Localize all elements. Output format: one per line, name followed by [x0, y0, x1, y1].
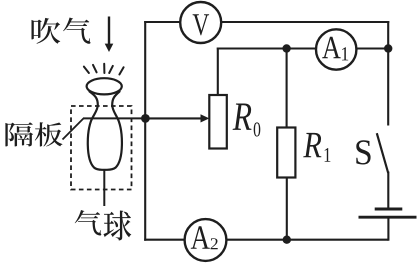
- junction node: A1 row meets right vertical: [384, 44, 392, 52]
- rheostat wiper arrow into R0: [145, 114, 209, 122]
- label 气球 (balloon): [75, 210, 132, 241]
- label S: [356, 140, 370, 164]
- wire: R1 bottom to bottom rail: [286, 178, 288, 241]
- label 隔板 (partition): [5, 122, 62, 146]
- ammeter A2: [185, 219, 227, 261]
- junction node: R1 bottom on bottom rail: [283, 236, 291, 244]
- label 吹气 (blow air): [32, 18, 91, 44]
- wire: battery to bottom rail segment: [387, 218, 389, 241]
- ammeter A1: [316, 29, 356, 69]
- wire: switch to battery segment: [387, 172, 389, 209]
- wire: right vertical down to switch: [387, 21, 389, 126]
- balloon mouth ellipse: [87, 78, 122, 94]
- battery positive plate (short): [375, 208, 403, 211]
- wire: R0 top riser: [217, 48, 219, 96]
- junction node: R1 top on A1 row: [282, 44, 290, 52]
- voltmeter V: [180, 2, 221, 43]
- rheostat R0 body: [209, 95, 227, 149]
- wire: left vertical conductor: [144, 21, 146, 241]
- balloon string: [103, 170, 105, 206]
- junction node: balloon tap on left conductor: [141, 114, 150, 123]
- wire: top run, node to voltmeter: [144, 21, 180, 23]
- wire: bottom rail, left node to ammeter A2: [144, 239, 185, 241]
- dashed enclosure box: [71, 106, 132, 190]
- wire: ammeter A1 to right vertical: [356, 47, 388, 49]
- battery negative plate (long): [359, 216, 417, 219]
- label R0: [233, 103, 261, 136]
- switch S blade (open): [377, 133, 388, 173]
- label R1: [303, 133, 330, 162]
- wire: bottom rail, ammeter A2 to battery: [226, 239, 388, 241]
- burst rays above balloon mouth: [84, 64, 124, 75]
- resistor R1 body: [277, 128, 295, 178]
- wire: voltmeter to top-right corner: [221, 21, 389, 23]
- wire: R1 branch riser (node to R1 top): [286, 49, 288, 128]
- partition pointer line from 隔板: [63, 118, 84, 139]
- blow-direction arrow: [105, 17, 114, 53]
- partition plate line: [83, 117, 146, 119]
- balloon neck and body: [88, 92, 122, 170]
- wire: A1 row, R0 riser to ammeter A1: [217, 47, 316, 49]
